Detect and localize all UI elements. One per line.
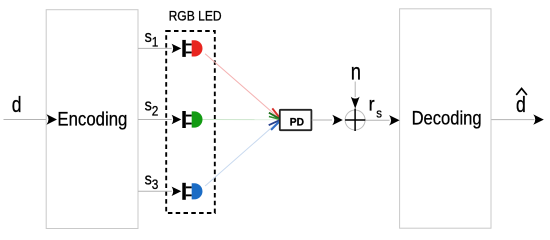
- LED D3 anode arrow: [172, 187, 182, 196]
- svg-text:3: 3: [152, 177, 159, 192]
- svg-text:d: d: [12, 92, 22, 117]
- svg-text:1: 1: [152, 35, 159, 50]
- svg-text:2: 2: [152, 103, 159, 118]
- LED D1 red dome: [192, 40, 203, 56]
- light beam blue: [205, 120, 280, 186]
- LED D3 blue dome: [192, 183, 203, 199]
- wire d input: [4, 119, 47, 121]
- arrowhead output: [533, 114, 544, 124]
- arrowhead into adder: [332, 115, 343, 125]
- LED D2 anode arrow: [172, 115, 182, 124]
- svg-text:s: s: [145, 96, 152, 115]
- svg-text:r: r: [369, 95, 376, 116]
- arrowhead into Decoding: [389, 115, 400, 125]
- RGB LED dashed enclosure: [166, 31, 215, 213]
- node s1 label: [145, 27, 159, 50]
- arrowhead into Encoding: [47, 114, 58, 124]
- wire s2: [138, 119, 172, 121]
- wire s3: [138, 190, 172, 192]
- svg-text:n: n: [351, 59, 361, 85]
- LED D2 green dome: [192, 111, 203, 127]
- svg-text:s: s: [376, 106, 382, 120]
- node s2 label: [145, 96, 159, 119]
- LED D3 leads: [186, 186, 192, 188]
- wire adder to Decoding: [365, 119, 389, 121]
- LED D1 cathode bar: [182, 40, 186, 57]
- svg-text:Decoding: Decoding: [412, 107, 482, 129]
- node r_s label: [369, 95, 382, 121]
- LED D1 leads: [186, 44, 192, 46]
- wire PD to adder: [312, 119, 332, 121]
- burst at PD input: [269, 108, 281, 129]
- LED D2 cathode bar: [182, 111, 186, 128]
- svg-text:s: s: [145, 170, 152, 189]
- wire n: [354, 82, 356, 98]
- node d-hat label: [516, 89, 527, 118]
- adder (sum junction): [345, 109, 365, 131]
- LED D1 red : anode arrow: [172, 44, 182, 53]
- block Decoding: [400, 9, 491, 228]
- svg-text:s: s: [145, 27, 152, 46]
- LED D2 leads: [186, 115, 192, 117]
- wire Decoding output: [491, 119, 534, 121]
- arrowhead n down: [351, 97, 360, 109]
- block Encoding: [46, 10, 138, 229]
- svg-text:Encoding: Encoding: [57, 109, 127, 131]
- block PD (photodetector): [280, 110, 312, 130]
- light beam red: [205, 54, 280, 120]
- svg-text:PD: PD: [290, 117, 304, 129]
- node s3 label: [145, 170, 159, 192]
- svg-text:d: d: [516, 92, 526, 117]
- light beam green: [203, 119, 280, 121]
- wire s1: [138, 47, 172, 49]
- LED D3 cathode bar: [182, 183, 186, 200]
- svg-text:RGB LED: RGB LED: [169, 8, 222, 23]
